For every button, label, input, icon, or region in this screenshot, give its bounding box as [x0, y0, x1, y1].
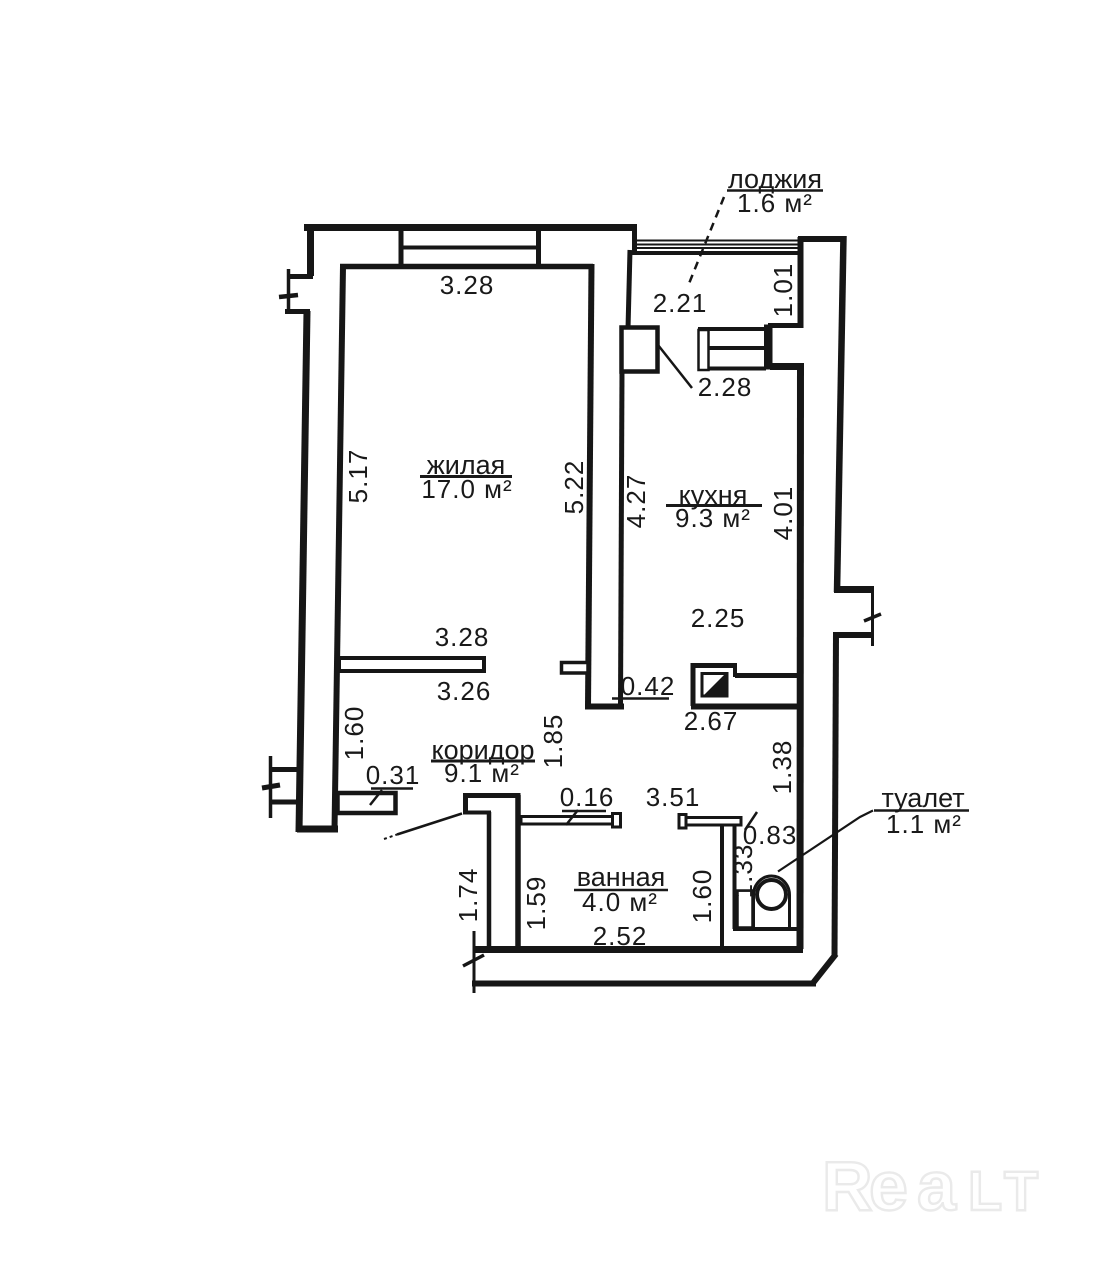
watermark: Realt logo: [822, 1147, 1038, 1225]
svg-text:17.0 м²: 17.0 м²: [421, 474, 512, 504]
vent/duct block top line: [691, 663, 737, 668]
vent/duct block west line: [691, 663, 696, 706]
corridor entry stub wall: [338, 793, 396, 813]
wall: kitchen north (right of door): [770, 363, 800, 370]
svg-text:9.1 м²: 9.1 м²: [444, 758, 520, 788]
dimension 3.28 (partition): [435, 622, 490, 652]
dimension 5.22 rotated: [559, 460, 589, 515]
svg-text:1.60: 1.60: [687, 869, 717, 924]
partition: living room / corridor: [339, 658, 484, 671]
toilet door tick: [745, 812, 757, 830]
wall: living room inner north line / window sill: [340, 264, 593, 270]
dimension 1.59 rotated: [521, 876, 551, 931]
balcony door: sill line A: [709, 346, 766, 350]
toilet north wall left cap: [679, 815, 686, 829]
svg-text:1.59: 1.59: [521, 876, 551, 931]
label: living room name: [420, 450, 512, 480]
wall: left wall bottom cap: [297, 826, 338, 833]
vent box in kitchen top-left: [622, 328, 658, 372]
break symbol upper: bottom jut: [285, 309, 310, 314]
wall: bottom inner line: [475, 946, 803, 953]
toilet bowl circle: [757, 880, 786, 909]
wall: loggia inner south line: [629, 251, 798, 255]
dimension 0.83: [743, 820, 798, 850]
balcony door: top line: [698, 327, 768, 331]
svg-text:5.22: 5.22: [559, 460, 589, 515]
entry door leaf line: [384, 814, 462, 840]
wall: top-right block east edge: [632, 224, 637, 253]
bathroom west wall cap top: [463, 793, 521, 798]
dimension 1.38 rotated: [767, 740, 797, 795]
svg-text:4.27: 4.27: [621, 474, 651, 529]
bathroom north thin wall (0.16): [521, 817, 613, 825]
wall: kitchen west lower below vent box: [621, 370, 623, 706]
window jamb left: [399, 228, 404, 266]
svg-text:1.85: 1.85: [538, 714, 568, 769]
svg-text:1.6 м²: 1.6 м²: [737, 188, 813, 218]
wall: living room east (corridor side): [588, 264, 592, 707]
dimension 2.67: [684, 706, 739, 736]
svg-text:2.67: 2.67: [684, 706, 739, 736]
label: corridor area: [444, 758, 520, 788]
bathroom west wall cap bottom-left: [463, 811, 491, 815]
wall: loggia east: [798, 237, 804, 328]
svg-text:2.52: 2.52: [593, 921, 648, 951]
balcony door: left jamb bar: [699, 330, 709, 370]
svg-text:L: L: [968, 1159, 1002, 1222]
svg-text:2.28: 2.28: [698, 372, 753, 402]
svg-text:T: T: [1004, 1159, 1038, 1222]
dimension 1.85 rotated: [538, 714, 568, 769]
break symbol lower-left: top jut: [270, 767, 298, 772]
wall: loggia floor south edge: [768, 323, 803, 328]
svg-text:2.25: 2.25: [691, 603, 746, 633]
bathroom west wall cap left edge: [463, 793, 468, 814]
break symbol upper: top jut: [288, 274, 313, 279]
svg-text:1.74: 1.74: [453, 868, 483, 923]
dimension 4.27 rotated: [621, 474, 651, 529]
break symbol upper: thin vertical: [287, 269, 291, 314]
loggia window line 1: [637, 240, 800, 242]
wall: outer east step bottom: [833, 632, 874, 638]
bathroom door tick: [566, 810, 578, 825]
wall: kitchen west upper above vent box: [628, 250, 630, 329]
toilet north thin wall (3.51 bar): [681, 818, 742, 826]
svg-text:5.17: 5.17: [343, 449, 373, 504]
break symbol upper: tick: [279, 295, 298, 297]
toilet cistern rectangle: [738, 891, 753, 928]
wall: outer east step top: [834, 586, 874, 593]
break symbol lower-left: thin vertical: [269, 756, 273, 818]
break symbol right: tick: [864, 614, 881, 621]
wall: top-right corner horizontal: [798, 236, 846, 242]
wall stub right of living room door: [562, 663, 589, 674]
bathroom west wall left line: [487, 812, 492, 948]
svg-text:4.0 м²: 4.0 м²: [582, 887, 658, 917]
balcony door: right jamb bar (solid): [765, 325, 773, 369]
label: living room area: [421, 474, 512, 504]
dimension 0.42 underlined: [612, 671, 675, 701]
leader line to 2.28 label: [658, 345, 692, 388]
dimension 1.60 rotated (toilet): [687, 869, 717, 924]
svg-text:4.01: 4.01: [768, 486, 798, 541]
dimension 1.33 rotated: [728, 844, 758, 899]
svg-text:1.1 м²: 1.1 м²: [886, 809, 962, 839]
vent/duct block step vertical: [733, 663, 737, 677]
svg-text:0.31: 0.31: [366, 760, 421, 790]
label: loggia area: [737, 188, 813, 218]
label: kitchen name: [666, 480, 762, 510]
svg-text:1.38: 1.38: [767, 740, 797, 795]
leader line to loggia label (dashed): [688, 197, 724, 286]
vent/duct block right horizontal: [735, 673, 800, 678]
label: corridor name: [431, 735, 535, 765]
svg-text:1.60: 1.60: [339, 706, 369, 761]
partition bathroom/toilet left line: [720, 826, 724, 948]
dimension 2.25: [691, 603, 746, 633]
label: bathroom area: [582, 887, 658, 917]
label: loggia room name: [727, 164, 823, 194]
wall: outer east lower: [835, 633, 837, 957]
dimension tick bottom-left: [463, 955, 484, 966]
wall: left outer, main segment: [299, 311, 307, 832]
balcony door: sill line B: [709, 367, 766, 371]
break symbol lower-left: tick: [262, 785, 280, 788]
wall: outer southeast chamfer: [813, 954, 836, 983]
label: kitchen area: [675, 503, 751, 533]
dimension 1.01 rotated: [768, 263, 798, 318]
wall: left outer, upper segment: [307, 224, 314, 276]
svg-text:3.26: 3.26: [437, 676, 492, 706]
wall: bottom outer line: [472, 981, 816, 987]
wall: left inner line (living room west): [335, 266, 344, 830]
dimension 3.51: [646, 782, 701, 812]
dimension 0.31 underlined: [366, 760, 421, 790]
svg-text:0.42: 0.42: [621, 671, 676, 701]
vent/duct block bottom line: [691, 704, 800, 710]
dimension 2.21: [653, 288, 708, 318]
loggia window line 2: [637, 244, 800, 246]
electric panel symbol square: [702, 674, 727, 697]
loggia window line 3: [637, 247, 800, 249]
label: toilet name: [874, 783, 969, 813]
wall: central wall bottom cap: [585, 704, 624, 710]
svg-text:3.28: 3.28: [435, 622, 490, 652]
dimension 2.28: [698, 372, 753, 402]
svg-text:3.28: 3.28: [440, 270, 495, 300]
svg-text:a: a: [917, 1147, 957, 1225]
partition bathroom/toilet right line: [733, 826, 737, 929]
dimension 1.74 rotated: [453, 868, 483, 923]
dimension 5.17 rotated: [343, 449, 373, 504]
dimension 1.60 rotated (corridor): [339, 706, 369, 761]
svg-text:e: e: [869, 1147, 908, 1225]
svg-text:0.16: 0.16: [560, 782, 615, 812]
dimension 2.52: [593, 921, 648, 951]
bathroom west wall right line: [515, 795, 521, 948]
label: toilet area: [886, 809, 962, 839]
svg-text:1.01: 1.01: [768, 263, 798, 318]
dimension 4.01 rotated: [768, 486, 798, 541]
dimension extension line bottom-left: [473, 931, 476, 993]
svg-text:3.51: 3.51: [646, 782, 701, 812]
entry stub door tick: [370, 790, 382, 805]
window: living room glass line: [401, 246, 539, 250]
window jamb right: [536, 228, 541, 266]
svg-text:9.3 м²: 9.3 м²: [675, 503, 751, 533]
toilet south band line: [733, 927, 800, 931]
dimension 3.28 (window): [440, 270, 495, 300]
break symbol lower-left: bottom jut: [271, 800, 300, 805]
svg-text:1.33: 1.33: [728, 844, 758, 899]
toilet bowl outline: [754, 876, 790, 927]
leader line to toilet label: [778, 811, 873, 872]
bathroom north wall end cap: [613, 814, 621, 828]
wall: top outer (north facade): [304, 224, 637, 231]
dimension 3.26: [437, 676, 492, 706]
break symbol right: thin vertical: [871, 586, 874, 646]
wall: kitchen east / toilet east: [797, 363, 805, 949]
svg-text:R: R: [822, 1147, 873, 1225]
svg-text:2.21: 2.21: [653, 288, 708, 318]
label: bathroom name: [574, 862, 668, 892]
wall: outer east upper: [837, 236, 844, 592]
dimension 0.16 underlined: [560, 782, 615, 812]
